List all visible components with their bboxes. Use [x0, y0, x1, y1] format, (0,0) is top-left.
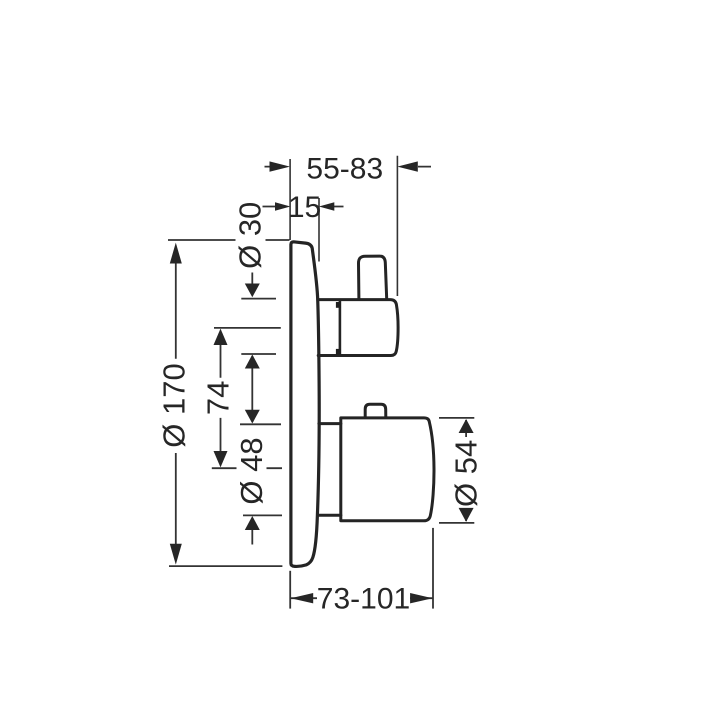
extension line: 73-101 left (x 290.2) [289, 571, 291, 609]
lower handle top tab [365, 404, 386, 417]
extension tick: D54 bottom (y 522.9) [439, 522, 474, 524]
svg-text:73-101: 73-101 [317, 583, 410, 616]
extension line: wall plane (x 290.1) [289, 159, 291, 240]
dim 55-83 arrow tails (y 166.6) [265, 166, 432, 168]
arrow D30 bottom up [245, 355, 260, 369]
arrow D48 top down [245, 410, 260, 424]
dim line D54 (x 466.1) [465, 420, 467, 521]
lower handle sleeve bottom line [318, 514, 341, 517]
lower handle sleeve top line [319, 422, 341, 425]
escutcheon plate (side profile) [291, 242, 319, 567]
extension tick: upper body bottom (y 354) [241, 353, 276, 355]
extension tick: D54 top (y 417.9) [439, 417, 474, 419]
upper handle lever stem [358, 256, 386, 299]
svg-text:Ø 48: Ø 48 [234, 437, 269, 504]
arrow D54 down [459, 508, 474, 522]
extension line: plate bottom (y 566) [169, 565, 282, 567]
svg-text:Ø 30: Ø 30 [232, 202, 267, 269]
arrow D54 up [459, 419, 474, 433]
arrow 55-83 right [397, 161, 418, 171]
upper shut-off handle body + sleeve outline [318, 300, 398, 356]
dim line D170 (x 175.8) [175, 262, 177, 544]
svg-text:55-83: 55-83 [306, 153, 383, 186]
arrow D170 up [170, 243, 182, 264]
arrow 74 down [214, 451, 228, 467]
svg-text:Ø 54: Ø 54 [449, 440, 484, 507]
extension line: plate top (y 240.6) [168, 239, 290, 241]
upper handle junction line [339, 300, 342, 355]
extension tick: lower sleeve top (y 424.3) [240, 423, 281, 425]
arrow 73-101 left [291, 593, 314, 603]
D30 arrow stem top [251, 273, 253, 286]
extension line: plate front (x 319) [318, 198, 320, 262]
arrow D48 bottom up [245, 516, 260, 530]
arrow D30 down [245, 284, 260, 298]
double arrow connector (x 252.3) [251, 356, 253, 422]
dim 15 arrow tails (y 206.5) [263, 206, 344, 208]
extension tick: lower handle center (y 468.2) [212, 467, 282, 469]
extension line: handle end (x 397.7) [396, 156, 398, 296]
dim line 74 (x 220.5) [220, 344, 222, 452]
svg-text:74: 74 [201, 381, 236, 415]
arrow 73-101 right [410, 593, 433, 603]
extension tick: upper handle center (y 327.9) [214, 327, 281, 329]
extension line: 73-101 right (x 433) [432, 528, 434, 609]
lower thermostat handle body [341, 418, 434, 521]
arrow D170 down [170, 544, 182, 565]
arrow 15 right [319, 202, 334, 211]
dimension texts [156, 153, 483, 616]
D48 arrow tail bottom [251, 529, 253, 545]
svg-text:15: 15 [288, 191, 321, 224]
upper handle notch marks [336, 302, 341, 355]
extension tick: upper body top (y 298.6) [241, 298, 276, 300]
arrowheads [170, 161, 474, 603]
svg-text:Ø 170: Ø 170 [156, 363, 191, 447]
arrow 15 left [275, 202, 290, 211]
arrow 55-83 left [270, 161, 291, 171]
dim line 73-101 (y 598.2) [291, 597, 433, 599]
extension tick: lower sleeve bottom (y 515.4) [243, 514, 282, 516]
arrow 74 up [214, 329, 228, 345]
